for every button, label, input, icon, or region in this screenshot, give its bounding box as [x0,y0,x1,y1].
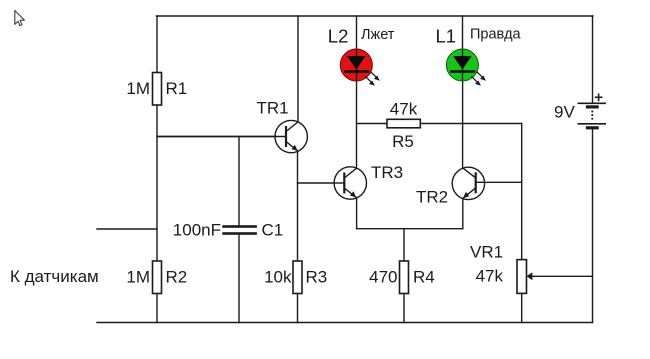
wire left column top (R1 top lead) [156,16,158,73]
resistor R1 [126,73,187,106]
svg-text:TR1: TR1 [257,99,289,118]
transistor TR1 [157,99,307,153]
wire R4 top lead [403,229,405,261]
LED L1 (green) [436,26,522,86]
resistor R4 [369,261,435,294]
wire bottom rail [97,322,593,324]
svg-text:Лжет: Лжет [361,27,395,43]
potentiometer VR1 [470,243,532,294]
svg-text:К датчикам: К датчикам [10,267,99,286]
svg-text:TR3: TR3 [371,163,403,182]
svg-text:1M: 1M [126,268,150,287]
svg-text:470: 470 [369,268,397,287]
wire L1 top lead [462,16,464,50]
transistor TR3 [334,163,403,199]
wire L2 to TR3 collector [356,81,358,169]
wire emitter junction line [357,228,463,230]
svg-text:R5: R5 [392,132,414,151]
svg-text:1M: 1M [126,79,150,98]
svg-text:C1: C1 [262,221,284,240]
wire left column middle (R1 bottom to R2 top) [156,105,158,261]
wire C1 top lead [238,137,240,227]
wire right column battery bottom [592,130,594,323]
wire TR2 emitter [462,199,464,229]
wire R3 bottom lead [297,294,299,323]
resistor R2 [126,261,187,294]
wire R4 bottom lead [403,294,405,323]
svg-text:47k: 47k [476,267,504,286]
svg-text:47k: 47k [390,100,418,119]
svg-text:TR2: TR2 [416,188,448,207]
wire VR1 bottom lead [521,293,523,322]
wire right column battery top [592,16,594,103]
wire C1 bottom lead [238,234,240,323]
svg-text:10k: 10k [264,268,292,287]
wire R5 right lead [420,123,463,125]
wire TR1 collector [297,16,299,122]
svg-text:R1: R1 [166,79,188,98]
wire TR2 base [485,181,522,183]
wire TR3 emitter [356,198,358,229]
svg-text:R3: R3 [306,268,328,287]
svg-text:R2: R2 [166,268,188,287]
svg-text:Правда: Правда [470,27,522,43]
wire L2 top lead [356,16,358,50]
svg-text:VR1: VR1 [470,243,503,262]
wire TR1 emitter to R3 [297,151,299,261]
svg-text:9V: 9V [554,103,575,122]
mouse cursor [15,11,24,26]
svg-text:L1: L1 [436,26,457,47]
svg-text:100nF: 100nF [173,221,221,240]
wire top rail [157,15,594,17]
resistor R5 [387,100,420,152]
wire TR3 base [298,182,345,184]
wire left column bottom (R2 bottom lead) [156,294,158,323]
svg-text:L2: L2 [328,26,349,47]
wire R5 left lead [357,123,388,125]
battery 9V [554,93,606,129]
wire sensor stub [97,228,157,230]
wire VR1 top column [521,124,523,260]
svg-text:R4: R4 [413,268,435,287]
wire TR1 base line [157,136,286,138]
wire L1 to TR2 collector [462,81,464,169]
wire junction to VR1 column horizontal [463,123,522,125]
capacitor C1 [173,221,283,240]
LED L2 (red) [328,26,395,86]
transistor TR2 [416,167,485,206]
resistor R3 [264,261,327,294]
wire VR1 wiper line [532,275,593,277]
